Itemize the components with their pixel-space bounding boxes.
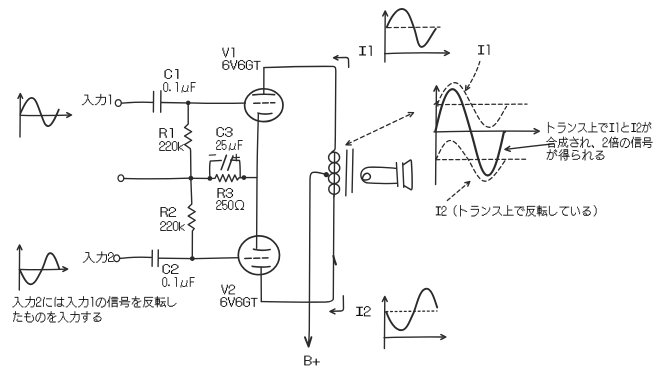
text: value V2 (220, 297, 257, 307)
dashed arrow I2 note to trough (447, 183, 468, 201)
resistor R3 (212, 175, 242, 182)
input1 terminal (115, 100, 121, 107)
cathode column V1->rail (257, 113, 258, 177)
input2 sine wave (inverted) (20, 253, 60, 284)
speaker voice-coil loop (362, 173, 370, 180)
wire input2 to C2 (120, 257, 151, 258)
text: value C3 (216, 140, 242, 151)
V1 plate bar (253, 93, 275, 96)
V1 grid dashes (254, 102, 275, 105)
V1 cathode bar (258, 112, 272, 115)
capacitor C2 (151, 250, 153, 266)
transformer primary coil (331, 140, 335, 154)
text: label C1 (164, 69, 178, 79)
text: label input2 (83, 251, 114, 262)
big graph v-axis (435, 89, 438, 185)
speaker cone (404, 160, 413, 190)
transformer primary bottom lead (332, 198, 335, 300)
wire C2 to junction (159, 257, 190, 259)
text: label C2 (162, 264, 178, 274)
node junction rail/cathode (242, 175, 247, 180)
text: label C3 (216, 127, 232, 137)
I1 direction arrow (336, 58, 349, 68)
input2 terminal (114, 255, 120, 262)
I2 direction arrow (332, 296, 344, 312)
text: value C1 (163, 82, 195, 93)
dashed arrow I1 label to dashed peak (467, 62, 480, 89)
node junction rail/C3 (208, 176, 213, 181)
big graph I1 dashed wave (438, 83, 507, 128)
resistor R1 (185, 105, 192, 177)
solid arrow from note to combined wave (507, 144, 554, 149)
wire terminal to R1 junction (124, 177, 189, 180)
input1 sine wave (20, 98, 59, 126)
big graph I2 dashed centerline (436, 158, 527, 161)
text: note combine line1 (548, 122, 651, 133)
B+ arrowhead (305, 337, 312, 346)
text: label I1-graph (359, 46, 372, 56)
transformer center tap node (324, 172, 329, 177)
wire to C3 junction (193, 177, 208, 179)
text: label R2 (160, 207, 176, 217)
capacitor C1 (152, 92, 154, 113)
big graph I2 dashed wave (436, 140, 506, 181)
I2 graph v-axis (383, 299, 385, 349)
wire C1 to grid junction (161, 102, 186, 104)
text: label input1 (82, 94, 111, 105)
V2 plate lead (260, 267, 262, 302)
I2 up arrow barb on lead (333, 256, 336, 264)
V2 grid dashes (245, 257, 268, 260)
node junction C1/R1 (186, 101, 191, 106)
node junction rail/R1 (189, 176, 194, 181)
V2 grid wire (192, 258, 238, 259)
text: note I2 inverted (436, 205, 597, 216)
text: label I1-big (478, 45, 489, 55)
wire input1 to C1 (121, 101, 152, 104)
text: label R1 (159, 128, 173, 138)
text: note combine line2 (546, 137, 652, 148)
input1 waveform axes (19, 96, 21, 137)
mid-left terminal (118, 175, 124, 182)
wire to cathode column (246, 177, 257, 179)
big graph small arrow on axis (434, 102, 438, 107)
big graph combined solid wave (435, 89, 505, 175)
cathode column rail->V2 (256, 178, 258, 248)
text: note combine line3 (547, 149, 605, 160)
input2 waveform axes (18, 248, 20, 291)
I1 graph bias dashed line (387, 26, 440, 29)
V2 plate wire to transformer bottom (261, 299, 333, 302)
wire junction to V1 grid (190, 102, 245, 104)
text: label V2 (221, 285, 235, 295)
I1 graph sine (387, 9, 436, 47)
text: label B+ (304, 356, 320, 366)
V2 plate bar (252, 265, 270, 268)
text: value R3 (216, 200, 244, 210)
node junction R2/C2 (190, 256, 195, 261)
I1 graph v-axis (384, 14, 386, 63)
text: value V1 (222, 60, 260, 70)
C3 minus sign (209, 154, 215, 156)
big graph h-axis (434, 130, 536, 133)
V1 plate lead (263, 68, 265, 95)
triode V1 envelope (245, 89, 283, 122)
text: value C2 (162, 277, 194, 288)
text: value R2 (160, 221, 184, 231)
center tap wire to B+ (309, 172, 327, 343)
I2 graph bias dotted line (386, 310, 437, 313)
text: label V1 (222, 48, 234, 58)
text: label I2-graph (356, 306, 370, 316)
I2 graph h-axis (384, 336, 443, 339)
triode V2 envelope (238, 236, 279, 275)
text: value R1 (159, 141, 183, 151)
resistor R2 (188, 180, 195, 256)
big graph I1 dashed centerline (439, 103, 527, 106)
speaker body (361, 167, 397, 183)
capacitor C3 polarized plates (221, 155, 226, 169)
text: note bottomleft line1 (12, 296, 176, 307)
text: label R3 (217, 188, 233, 198)
I1 graph h-axis (385, 52, 447, 55)
speaker frame band (396, 163, 397, 187)
V2 cathode bar (254, 249, 271, 250)
C3 plus sign (233, 154, 239, 161)
transformer core lines (346, 150, 347, 196)
text: note bottomleft line2 (13, 311, 102, 322)
V1 plate wire to transformer top (264, 66, 336, 139)
dashed arrow transformer to big graph (348, 113, 413, 144)
capacitor C3 loop wires (210, 160, 222, 178)
I2 graph sine (inverted) (386, 289, 437, 331)
